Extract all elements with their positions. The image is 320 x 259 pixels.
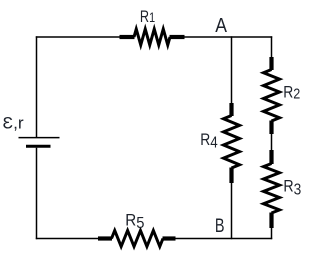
- resistor R2 lead bottom: [269, 121, 273, 135]
- svg-text:R3: R3: [283, 178, 301, 199]
- wire: left vertical above battery: [36, 36, 38, 137]
- resistor R5 lead left: [98, 236, 112, 240]
- battery E,r plate short thick: [26, 145, 51, 148]
- resistor R4 zigzag: [224, 116, 240, 169]
- svg-text:A: A: [215, 14, 227, 36]
- wire: right vertical from top corner to R2: [271, 36, 273, 58]
- resistor R3 lead top: [269, 150, 273, 164]
- svg-text:R1: R1: [140, 9, 155, 27]
- resistor R1 lead left: [120, 35, 135, 39]
- resistor R1 zigzag: [134, 29, 170, 45]
- resistor R2 lead top: [269, 57, 273, 70]
- wire: middle vertical from node A down to R4: [231, 36, 233, 104]
- wire: top horizontal from left corner to R1: [36, 36, 121, 38]
- battery E,r plate long: [19, 137, 60, 139]
- svg-text:R2: R2: [283, 84, 300, 102]
- resistor R3 lead bottom: [269, 213, 273, 229]
- wire: bottom horizontal from left corner to R5: [36, 238, 100, 240]
- resistor R4 lead bottom: [229, 168, 233, 184]
- svg-text:Ɛ,r: Ɛ,r: [3, 113, 24, 133]
- resistor R3 zigzag: [264, 164, 280, 214]
- resistor R1 lead right: [170, 35, 185, 39]
- resistor R4 lead top: [229, 103, 233, 116]
- wire: bottom horizontal from R5 through node B to right corner: [175, 238, 273, 240]
- svg-text:R4: R4: [200, 131, 217, 152]
- wire: top horizontal from R1 through node A to right corner: [184, 36, 273, 38]
- wire: right vertical between R2 and R3: [271, 133, 273, 152]
- svg-text:R5: R5: [125, 212, 144, 232]
- resistor R2 zigzag: [264, 70, 280, 122]
- wire: right vertical from R3 to bottom corner: [271, 227, 273, 239]
- wire: middle vertical from R4 down to node B: [231, 182, 233, 239]
- svg-text:B: B: [215, 214, 225, 237]
- wire: left vertical below battery: [36, 148, 38, 240]
- resistor R5 lead right: [163, 236, 176, 240]
- resistor R5 zigzag: [112, 231, 164, 247]
